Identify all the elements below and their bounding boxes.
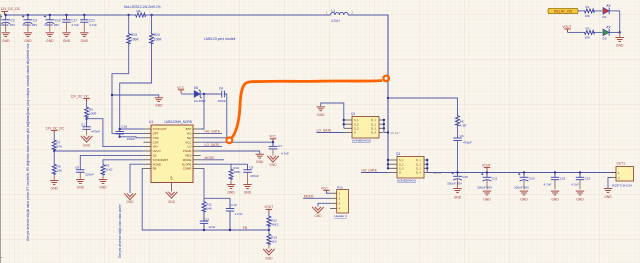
capacitor C23 bbox=[571, 173, 591, 202]
wire: SLOPE/RES rail bbox=[201, 163, 248, 165]
wire: R24 to C18 node bbox=[120, 45, 152, 130]
wire: input rail bbox=[5, 14, 129, 16]
capacitor C3 bbox=[22, 15, 38, 43]
svg-text:CSP: CSP bbox=[153, 140, 159, 144]
svg-text:VCC: VCC bbox=[269, 135, 276, 139]
svg-text:470nF: 470nF bbox=[250, 174, 259, 178]
power port VCC (BST diode) bbox=[177, 86, 184, 93]
svg-text:GND: GND bbox=[63, 39, 71, 43]
svg-text:C3: C3 bbox=[33, 18, 37, 22]
svg-text:10K: 10K bbox=[585, 14, 591, 18]
svg-text:330uF 50V: 330uF 50V bbox=[477, 185, 493, 189]
svg-text:1K3: 1K3 bbox=[271, 239, 277, 243]
svg-text:C12: C12 bbox=[231, 203, 237, 207]
capacitor C10 bbox=[447, 172, 468, 200]
svg-text:VCC: VCC bbox=[321, 186, 328, 190]
wire: orange highlight annotation bbox=[226, 76, 389, 144]
svg-text:Gerçek devrede düşük akım çeke: Gerçek devrede düşük akım çeken RT seçil… bbox=[26, 42, 30, 241]
resistor R23 bbox=[127, 15, 140, 45]
capacitor C20 bbox=[514, 173, 535, 202]
svg-text:4.3R: 4.3R bbox=[460, 124, 467, 128]
ground (EP pad) bbox=[166, 183, 178, 204]
svg-text:AGND: AGND bbox=[153, 162, 161, 166]
svg-text:HO_GATE: HO_GATE bbox=[362, 169, 378, 173]
svg-text:100K: 100K bbox=[233, 170, 241, 174]
wire: FB rail bbox=[142, 169, 269, 230]
svg-text:R23: R23 bbox=[131, 33, 137, 37]
svg-text:C11: C11 bbox=[492, 176, 498, 180]
svg-text:MODE: MODE bbox=[183, 158, 192, 162]
svg-text:C18: C18 bbox=[121, 124, 127, 128]
svg-text:12V_DC_DC: 12V_DC_DC bbox=[70, 94, 89, 98]
wire: diode to C4 bbox=[201, 93, 222, 95]
resistor R1 bbox=[583, 5, 602, 18]
wire: BST node down to BST pin bbox=[201, 94, 204, 129]
svg-text:100nF: 100nF bbox=[218, 99, 227, 103]
svg-text:RES: RES bbox=[185, 154, 191, 158]
svg-text:COMP: COMP bbox=[183, 167, 192, 171]
svg-text:SS: SS bbox=[153, 154, 157, 158]
pin stubs left bbox=[143, 129, 151, 169]
capacitor C18 bbox=[116, 124, 136, 141]
svg-text:10K: 10K bbox=[585, 36, 591, 40]
svg-text:1.2nF: 1.2nF bbox=[235, 212, 243, 216]
svg-text:12nF: 12nF bbox=[208, 225, 215, 229]
svg-text:GND: GND bbox=[576, 198, 584, 202]
svg-text:220nF: 220nF bbox=[85, 172, 94, 176]
resistor R7 bbox=[52, 134, 63, 151]
svg-text:330uF 25V: 330uF 25V bbox=[44, 23, 60, 27]
net label LO_GATE (at LO pin) bbox=[201, 143, 222, 147]
node R5/C junction bbox=[85, 118, 87, 120]
connector OUT1 bbox=[611, 161, 634, 187]
svg-text:4.7uF: 4.7uF bbox=[571, 182, 579, 186]
power port VOUT (LED) bbox=[563, 25, 572, 32]
svg-text:12V_DC_DC: 12V_DC_DC bbox=[1, 7, 21, 11]
net label MODE (header pin2) bbox=[303, 194, 330, 198]
capacitor C15 470nF bbox=[81, 119, 100, 148]
svg-text:GND: GND bbox=[520, 198, 528, 202]
resistor R24 bbox=[150, 15, 163, 45]
svg-text:BST: BST bbox=[186, 127, 192, 131]
svg-text:PGND: PGND bbox=[183, 149, 191, 153]
LED D5 bbox=[603, 26, 620, 41]
svg-text:R24: R24 bbox=[154, 33, 160, 37]
junction dots input rail bbox=[5, 14, 153, 16]
node Q1 drain bus bbox=[383, 120, 385, 133]
svg-text:100R: 100R bbox=[89, 112, 97, 116]
capacitor C19 bbox=[44, 15, 61, 43]
sheet edge bbox=[0, 14, 2, 263]
svg-text:VCC: VCC bbox=[185, 140, 191, 144]
port RELAY_ON bbox=[548, 8, 578, 13]
svg-text:GND: GND bbox=[168, 200, 176, 204]
wire: rail R4 to L1 bbox=[152, 14, 331, 16]
svg-text:100nF: 100nF bbox=[127, 137, 136, 141]
svg-text:GND: GND bbox=[2, 39, 10, 43]
wire: LED common down bbox=[619, 11, 621, 33]
svg-text:470pF: 470pF bbox=[463, 141, 472, 145]
wire: COMP to compensation bbox=[201, 169, 204, 199]
svg-text:GND: GND bbox=[51, 186, 59, 190]
capacitor C2 bbox=[0, 15, 16, 43]
svg-text:C6: C6 bbox=[460, 134, 464, 138]
svg-text:UVLO: UVLO bbox=[153, 149, 162, 153]
resistor R8 bbox=[50, 151, 63, 190]
capacitor C6 bbox=[453, 134, 472, 173]
svg-text:330uF 25V: 330uF 25V bbox=[22, 23, 38, 27]
svg-text:C4: C4 bbox=[219, 86, 223, 90]
svg-text:C22: C22 bbox=[560, 176, 566, 180]
wire: snubber branch bbox=[388, 98, 458, 115]
svg-text:C9: C9 bbox=[249, 165, 253, 169]
svg-text:VOUT: VOUT bbox=[264, 205, 273, 209]
svg-text:C17: C17 bbox=[71, 18, 77, 22]
svg-text:GND: GND bbox=[24, 39, 32, 43]
svg-text:OPT: OPT bbox=[153, 132, 159, 136]
svg-text:L1: L1 bbox=[332, 9, 336, 13]
node FB junctions bbox=[203, 229, 270, 231]
svg-text:LM5122MH_NOPB: LM5122MH_NOPB bbox=[165, 120, 192, 124]
svg-text:P10: P10 bbox=[337, 185, 343, 189]
svg-text:GND: GND bbox=[551, 198, 559, 202]
svg-text:4.7uH: 4.7uH bbox=[331, 19, 340, 23]
svg-text:VOUT: VOUT bbox=[482, 163, 491, 167]
svg-text:GND: GND bbox=[604, 195, 612, 199]
svg-text:MODE: MODE bbox=[205, 156, 216, 160]
svg-text:100R: 100R bbox=[154, 37, 162, 41]
svg-text:GND: GND bbox=[616, 44, 624, 48]
wire: L1 to SW corner bbox=[348, 15, 388, 98]
LED D4 bbox=[603, 4, 620, 19]
svg-text:MODE: MODE bbox=[304, 194, 315, 198]
ground (PGND pin) bbox=[201, 151, 264, 164]
power port 12V_DC_DC (VIN filter) bbox=[70, 94, 89, 102]
svg-text:MoLLR2512-1W-2mR-1%: MoLLR2512-1W-2mR-1% bbox=[124, 5, 161, 9]
node BST junction bbox=[203, 93, 205, 95]
wire: VOUT to R2 bbox=[568, 31, 584, 33]
svg-text:4.7uF: 4.7uF bbox=[281, 151, 289, 155]
svg-text:LO_GATE: LO_GATE bbox=[205, 143, 221, 147]
node UVLO junction bbox=[53, 150, 55, 152]
transistor Q1 bbox=[344, 112, 383, 142]
capacitor C13 bbox=[200, 213, 216, 231]
net label HO_GATE (Q2 gate) bbox=[361, 169, 389, 173]
wire: VCC pin rail bbox=[201, 141, 273, 143]
svg-text:Q2: Q2 bbox=[396, 152, 400, 156]
svg-text:C1: C1 bbox=[81, 123, 85, 127]
svg-text:GND: GND bbox=[227, 191, 235, 195]
svg-text:24K: 24K bbox=[206, 207, 212, 211]
svg-text:U1: U1 bbox=[149, 120, 153, 124]
resistor R2 bbox=[583, 27, 602, 40]
svg-text:GND: GND bbox=[314, 214, 322, 218]
svg-text:47K: 47K bbox=[57, 144, 63, 148]
svg-text:Header 4: Header 4 bbox=[335, 214, 348, 218]
svg-text:40K2: 40K2 bbox=[271, 222, 279, 226]
svg-text:2A 200V: 2A 200V bbox=[194, 99, 207, 103]
svg-text:R2: R2 bbox=[586, 27, 590, 31]
svg-text:LM5123 yeni modeli: LM5123 yeni modeli bbox=[204, 37, 236, 41]
pin names bbox=[153, 127, 169, 171]
capacitor C7 bbox=[267, 142, 289, 167]
ground (LED) bbox=[616, 32, 624, 47]
svg-text:GND: GND bbox=[454, 195, 462, 199]
svg-text:C8: C8 bbox=[75, 165, 79, 169]
svg-text:RELAY_ON: RELAY_ON bbox=[554, 10, 572, 14]
ground (OUT1 pin2) bbox=[604, 178, 612, 200]
svg-text:12V_DC_DC: 12V_DC_DC bbox=[46, 126, 65, 130]
svg-text:Q1: Q1 bbox=[351, 112, 355, 116]
svg-text:D6: D6 bbox=[194, 86, 198, 90]
net label HO_GATE bbox=[201, 130, 222, 134]
diode D6 bbox=[194, 86, 207, 103]
svg-text:LO_GATE: LO_GATE bbox=[317, 129, 333, 133]
transistor Q2 bbox=[389, 152, 428, 182]
svg-text:SW: SW bbox=[187, 136, 192, 140]
svg-text:C21: C21 bbox=[89, 18, 95, 22]
capacitor C11 bbox=[477, 173, 498, 202]
svg-text:AON6504/GA: AON6504/GA bbox=[352, 139, 372, 143]
svg-text:Gerçek devrede bağlı olan olas: Gerçek devrede bağlı olan olası pinler bbox=[118, 203, 122, 258]
svg-text:GND: GND bbox=[77, 186, 85, 190]
svg-text:D4: D4 bbox=[603, 15, 607, 19]
svg-text:OUT1: OUT1 bbox=[617, 161, 626, 165]
power port VCC (decoupling) bbox=[269, 135, 276, 144]
svg-text:VOUT: VOUT bbox=[563, 25, 572, 29]
svg-text:W237C-B-2.54: W237C-B-2.54 bbox=[612, 183, 632, 187]
svg-text:C20: C20 bbox=[529, 176, 535, 180]
svg-text:C2: C2 bbox=[11, 18, 15, 22]
svg-text:4.7uF: 4.7uF bbox=[544, 182, 552, 186]
wire: C18 bottom to CSN pin bbox=[120, 137, 144, 138]
power port VCC (header) bbox=[321, 186, 330, 193]
resistor R9 bbox=[99, 160, 144, 190]
svg-text:HO_GATE: HO_GATE bbox=[205, 130, 221, 134]
svg-text:51K2: 51K2 bbox=[105, 168, 113, 172]
svg-text:SYNCIN/RT: SYNCIN/RT bbox=[153, 158, 169, 162]
svg-text:330uF 50V: 330uF 50V bbox=[514, 185, 530, 189]
svg-text:GND: GND bbox=[265, 256, 273, 260]
svg-text:SLOPE: SLOPE bbox=[182, 162, 192, 166]
svg-text:CSN: CSN bbox=[153, 136, 159, 140]
wire: port to R1 bbox=[578, 10, 583, 12]
svg-text:GND: GND bbox=[256, 160, 264, 164]
resistor R10 bbox=[227, 164, 242, 194]
capacitor C8 bbox=[75, 155, 143, 189]
capacitor C4 bbox=[218, 86, 227, 103]
svg-text:GND: GND bbox=[46, 39, 54, 43]
svg-text:C19: C19 bbox=[55, 18, 61, 22]
svg-text:GND: GND bbox=[244, 191, 252, 195]
ground (Q1 source) bbox=[317, 103, 345, 128]
ground (near IC top) bbox=[155, 97, 163, 107]
svg-text:FB: FB bbox=[153, 167, 157, 171]
svg-text:GND: GND bbox=[126, 200, 134, 204]
svg-text:10, 11 ″: 10, 11 ″ bbox=[391, 131, 400, 135]
svg-text:R1: R1 bbox=[586, 5, 590, 9]
power port VOUT (rail) bbox=[482, 163, 491, 171]
power port 12V_DC_DC (UVLO divider) bbox=[46, 126, 65, 133]
svg-text:C23: C23 bbox=[585, 176, 591, 180]
svg-text:4.7uF: 4.7uF bbox=[71, 23, 79, 27]
capacitor C9 bbox=[243, 164, 259, 194]
net label LO_GATE (Q1 gate) bbox=[317, 129, 344, 133]
resistor R6 bbox=[456, 115, 468, 138]
svg-text:D5: D5 bbox=[603, 37, 607, 41]
wire: SW vertical lower bbox=[387, 98, 389, 169]
node VOUT rail junctions bbox=[456, 171, 581, 173]
svg-text:GND: GND bbox=[99, 186, 107, 190]
wire: R23 to CS pin bbox=[112, 45, 143, 134]
svg-text:VCC: VCC bbox=[177, 86, 184, 90]
svg-text:GND: GND bbox=[269, 163, 277, 167]
ground (header pin3) bbox=[312, 203, 330, 218]
ground (AGND pin) bbox=[124, 164, 143, 204]
capacitor C22 bbox=[544, 173, 566, 202]
svg-text:GND: GND bbox=[483, 198, 491, 202]
svg-text:330uF 25V: 330uF 25V bbox=[0, 23, 16, 27]
resistor R11 bbox=[202, 198, 213, 212]
svg-text:GND: GND bbox=[81, 39, 89, 43]
power port 12V_DC_DC (top-left) bbox=[1, 7, 21, 15]
resistor R4 (shunt) bbox=[124, 5, 161, 17]
svg-text:GND: GND bbox=[317, 113, 325, 117]
IC U1 LM5122MH_NOPB boost controller bbox=[143, 120, 200, 182]
resistor R5 bbox=[85, 102, 98, 118]
resistor R12 bbox=[267, 213, 279, 230]
power port VOUT (divider) bbox=[264, 205, 273, 213]
capacitor C17 bbox=[62, 15, 79, 43]
svg-text:HO: HO bbox=[187, 132, 192, 136]
node Q2 source bus bbox=[387, 159, 389, 170]
svg-text:GND: GND bbox=[155, 104, 163, 108]
svg-text:GND: GND bbox=[83, 143, 91, 147]
svg-text:VIN: VIN bbox=[153, 145, 158, 149]
capacitor C21 bbox=[80, 15, 97, 43]
svg-text:C7: C7 bbox=[278, 144, 282, 148]
wire: UVLO divider to pin bbox=[54, 150, 143, 152]
svg-text:C13: C13 bbox=[203, 217, 209, 221]
svg-text:4.7uF: 4.7uF bbox=[89, 23, 97, 27]
wire: VCC to diode bbox=[181, 93, 194, 95]
wire: VOUT rail bbox=[427, 172, 616, 174]
net label MODE (at MODE pin) bbox=[201, 156, 224, 160]
wire: Q2 drain bus to VOUT rail bbox=[426, 160, 428, 173]
svg-text:EP: EP bbox=[170, 176, 174, 180]
svg-text:AON6504/GA: AON6504/GA bbox=[397, 179, 417, 183]
svg-text:SYNCOUT: SYNCOUT bbox=[153, 127, 167, 131]
wire: C4 right lead down to SW pin wire bbox=[225, 94, 227, 138]
svg-text:C10: C10 bbox=[462, 175, 468, 179]
inductor L1 bbox=[326, 9, 354, 23]
connector P10 header bbox=[330, 185, 348, 218]
svg-text:10K: 10K bbox=[57, 169, 63, 173]
resistor R13 bbox=[263, 230, 277, 260]
svg-text:470nF: 470nF bbox=[91, 130, 100, 134]
wire: R5 node to VIN pin bbox=[87, 118, 144, 147]
svg-text:R4: R4 bbox=[137, 10, 141, 14]
svg-text:330uF 50V: 330uF 50V bbox=[447, 181, 463, 185]
wire: comp top link bbox=[204, 197, 230, 199]
pin stubs right bbox=[193, 129, 201, 169]
wire: SW pin bbox=[201, 137, 227, 139]
capacitor C12 bbox=[226, 198, 243, 230]
wire: branch to GND near IC top bbox=[112, 95, 159, 97]
svg-text:100R: 100R bbox=[131, 37, 139, 41]
